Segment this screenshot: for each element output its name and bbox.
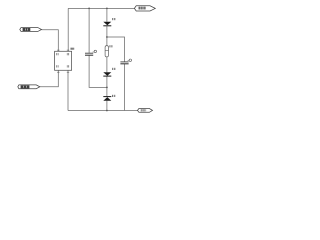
pin 3 tick	[57, 71, 59, 73]
pin 4 tick	[67, 71, 69, 73]
wire C2 to bottom rail	[124, 64, 126, 111]
junction node branch tee	[106, 36, 108, 38]
port flag AC2 left bottom	[18, 85, 40, 89]
wire main column rail to D1	[106, 8, 108, 21]
junction node top rail / main column	[106, 7, 108, 9]
junction node C1 joins main column	[106, 87, 108, 89]
pin number 4	[67, 65, 69, 67]
pin number 1	[56, 53, 58, 55]
wire D2 to D3	[106, 76, 108, 96]
wire bottom rail	[68, 110, 139, 112]
wire top rail	[68, 7, 136, 9]
fuse F1	[105, 45, 112, 57]
pin number 3	[56, 65, 58, 67]
port flag VIN top right	[134, 6, 155, 11]
pin 2 tick	[67, 49, 69, 51]
wire D3 to bottom rail	[106, 101, 108, 111]
capacitor C2	[120, 59, 131, 64]
junction node bottom rail / main column	[106, 110, 108, 112]
diode D3	[103, 95, 115, 101]
port flag GND bottom right	[138, 109, 153, 113]
wire box pin 4 down to bottom rail	[67, 70, 69, 110]
bridge rectifier B1 body	[55, 51, 72, 70]
bridge rectifier label	[70, 48, 74, 50]
wire D1 to fuse F1	[106, 26, 108, 45]
capacitor C1	[85, 50, 97, 55]
wire box pin 3 to flag2	[40, 70, 59, 87]
wire C1 column upper	[88, 8, 90, 53]
wire branch to C2 column	[107, 37, 125, 62]
port flag AC1 left top	[20, 28, 42, 32]
junction node top rail / C1 column	[88, 7, 90, 9]
wire rail corner down to box pin 2	[67, 8, 69, 51]
wire F1 to D2	[106, 57, 108, 72]
pin number 2	[67, 53, 69, 55]
wire flag1 to box pin 1	[42, 30, 59, 52]
diode D1	[103, 18, 115, 26]
pin 1 tick	[57, 49, 59, 51]
diode D2	[103, 68, 115, 76]
wire C1 column lower to main column	[89, 55, 107, 87]
